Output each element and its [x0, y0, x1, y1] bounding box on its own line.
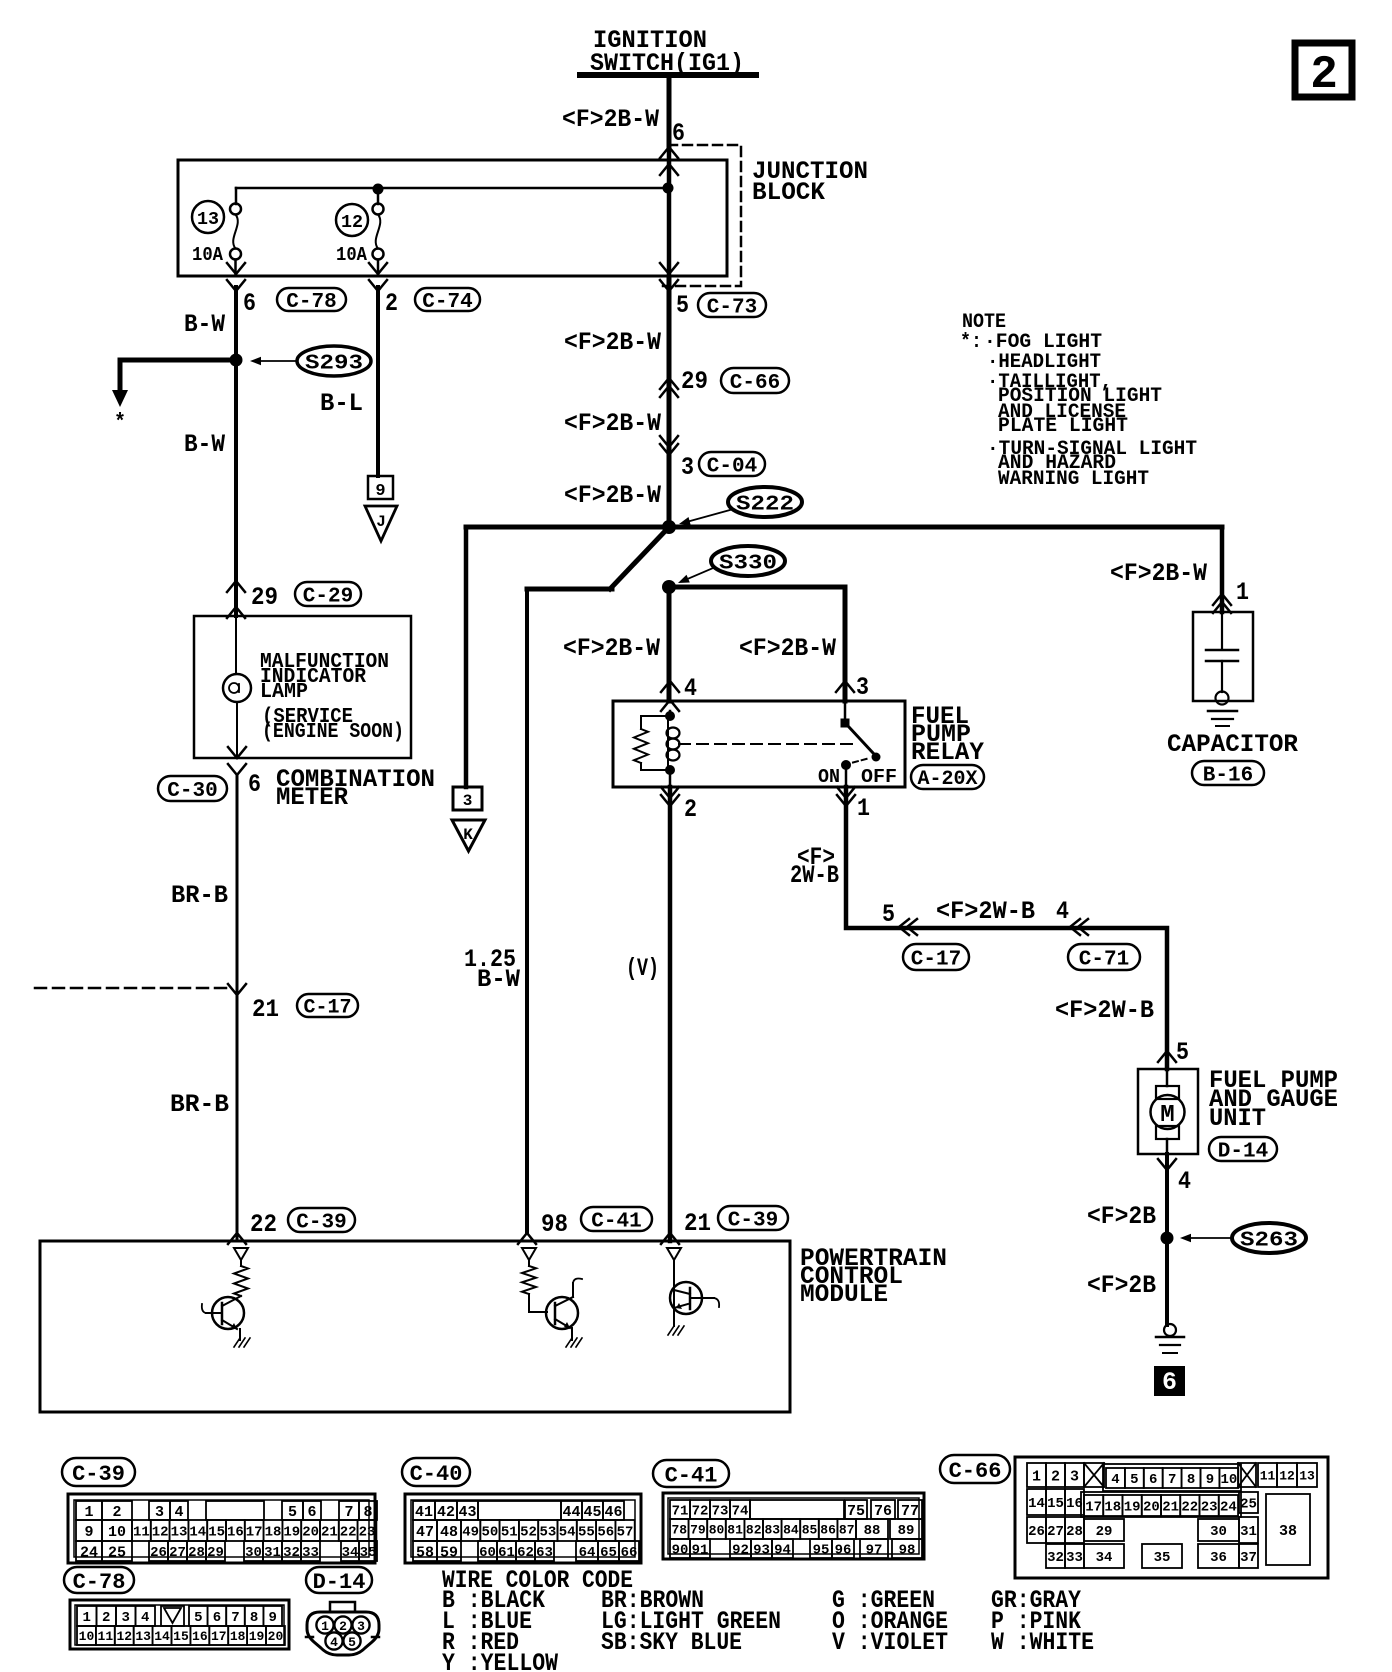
wire inside junction block	[667, 146, 672, 277]
svg-text:3: 3	[1070, 1468, 1079, 1485]
PCM pullup resistor R2	[528, 1260, 530, 1266]
svg-text:41: 41	[415, 1504, 433, 1521]
wire BR-B from combination meter	[236, 775, 239, 1241]
svg-text:2: 2	[1051, 1468, 1060, 1485]
bus wire from S222 to capacitor	[466, 525, 1222, 530]
svg-text:C-30: C-30	[167, 780, 217, 803]
svg-text:35: 35	[1154, 1550, 1171, 1566]
malfunction indicator lamp box	[194, 616, 411, 758]
svg-text:C-41: C-41	[591, 1211, 641, 1234]
svg-text:21: 21	[252, 995, 279, 1024]
svg-text:78: 78	[671, 1523, 687, 1538]
svg-text:51: 51	[501, 1525, 518, 1541]
connector arrow into lamp box	[227, 607, 245, 618]
svg-text:21: 21	[1162, 1500, 1179, 1516]
svg-text:29: 29	[681, 367, 708, 396]
svg-text:45: 45	[583, 1504, 601, 1521]
svg-text:C-78: C-78	[286, 291, 336, 314]
svg-text:77: 77	[901, 1503, 919, 1520]
svg-text:4: 4	[1056, 897, 1069, 926]
svg-text:18: 18	[230, 1629, 246, 1644]
svg-text:15: 15	[173, 1629, 189, 1644]
relay switch fixed contact from pin 3	[844, 701, 847, 719]
svg-text:89: 89	[898, 1523, 915, 1539]
PCM pin 98 label (C-41)	[518, 1233, 536, 1244]
connector view C-40	[405, 1494, 641, 1563]
svg-text:3: 3	[856, 673, 869, 702]
svg-text:13: 13	[135, 1629, 151, 1644]
terminal 3 box (K)	[453, 787, 482, 810]
connector view C-41	[663, 1493, 924, 1559]
wire 1.25 B-W to PCM pin 98	[525, 589, 529, 1233]
fuel pump relay pin 4	[661, 681, 679, 692]
PCM pin 21 label (C-39)	[661, 1233, 679, 1244]
svg-text:21: 21	[321, 1525, 338, 1541]
splice S330	[711, 546, 785, 576]
svg-text:27: 27	[1047, 1524, 1064, 1540]
relay switch arm	[848, 726, 874, 754]
svg-text:57: 57	[617, 1525, 634, 1541]
svg-text:B-L: B-L	[320, 389, 363, 418]
svg-text:11: 11	[1260, 1469, 1276, 1484]
svg-text:20: 20	[268, 1629, 284, 1644]
svg-text:5: 5	[676, 291, 689, 320]
connector arrows C-04	[660, 436, 678, 447]
connector view C-78	[70, 1600, 289, 1649]
svg-text:10A: 10A	[336, 244, 368, 266]
svg-text:12: 12	[1279, 1469, 1295, 1484]
svg-text:74: 74	[732, 1504, 749, 1520]
svg-text:<F>2B-W: <F>2B-W	[564, 328, 661, 357]
svg-text:38: 38	[1279, 1523, 1297, 1540]
fuel pump and gauge unit box	[1138, 1069, 1198, 1154]
splice S222	[728, 487, 802, 517]
svg-text:17: 17	[246, 1525, 263, 1541]
svg-text:42: 42	[437, 1504, 455, 1521]
wire down to terminal K	[464, 527, 469, 787]
junction node on bus (fuse 12 tap)	[373, 184, 384, 195]
svg-text:19: 19	[249, 1629, 265, 1644]
svg-text:15: 15	[208, 1525, 225, 1541]
svg-text:18: 18	[265, 1525, 282, 1541]
wire 2B-W main feed	[667, 277, 672, 527]
svg-text:14: 14	[1028, 1496, 1045, 1512]
svg-text:76: 76	[874, 1503, 892, 1520]
svg-text:11: 11	[133, 1525, 150, 1541]
svg-text:METER: METER	[276, 783, 348, 812]
capacitor ground	[1208, 710, 1237, 713]
svg-text:D-14: D-14	[1218, 1141, 1268, 1164]
svg-text:15: 15	[1047, 1496, 1064, 1512]
lamp wire inside box	[235, 616, 237, 674]
svg-text:3: 3	[155, 1504, 164, 1521]
svg-text:28: 28	[188, 1545, 205, 1561]
svg-text:53: 53	[539, 1525, 556, 1541]
svg-text:93: 93	[753, 1543, 770, 1559]
svg-text:22: 22	[250, 1210, 277, 1239]
svg-text:7: 7	[231, 1610, 239, 1626]
fuel pump relay pin 3	[836, 681, 854, 692]
svg-text:35: 35	[360, 1545, 377, 1561]
svg-text:S330: S330	[719, 553, 777, 576]
svg-text:1: 1	[1032, 1468, 1041, 1485]
relay pin4 entry arrow	[661, 700, 679, 711]
svg-text:<F>2B-W: <F>2B-W	[1110, 559, 1207, 588]
connector arrows below fuse 12	[369, 263, 387, 274]
svg-text:*: *	[114, 410, 126, 435]
relay pin 2	[661, 787, 679, 798]
svg-text:36: 36	[1210, 1550, 1227, 1566]
svg-text:*:: *:	[960, 331, 982, 354]
combination meter C-30 label	[158, 776, 227, 801]
svg-text:10: 10	[1220, 1472, 1237, 1488]
svg-text:3: 3	[681, 453, 694, 482]
bus wire inside junction block	[236, 187, 668, 190]
PCM transistor Q3	[673, 1260, 675, 1326]
wire B-W from fuse 13 to malfunction indicator lamp	[234, 287, 238, 616]
svg-text:26: 26	[1028, 1524, 1045, 1540]
svg-text:86: 86	[820, 1523, 836, 1538]
PCM transistor Q1	[212, 1297, 244, 1329]
connector arrows wire 6 into junction block	[660, 147, 678, 158]
svg-text:4: 4	[1178, 1167, 1191, 1196]
connector view C-39 label	[62, 1458, 135, 1486]
connector view C-66 label	[940, 1455, 1010, 1483]
svg-text:BLOCK: BLOCK	[752, 178, 825, 207]
svg-text:29: 29	[1096, 1524, 1113, 1540]
connector view C-40 label	[402, 1458, 470, 1486]
svg-text:27: 27	[169, 1545, 186, 1561]
svg-text:84: 84	[783, 1523, 799, 1538]
svg-text:OFF: OFF	[861, 766, 897, 788]
wire B-L from fuse 12	[376, 287, 380, 476]
connector arrows capacitor pin 1	[1220, 527, 1225, 612]
svg-text:9: 9	[375, 482, 385, 501]
svg-text:7: 7	[344, 1504, 353, 1521]
svg-text:<F>2B-W: <F>2B-W	[563, 634, 660, 663]
svg-text:6: 6	[1149, 1472, 1157, 1488]
wire 2B to ground	[1165, 1154, 1169, 1325]
powertrain control module box	[40, 1241, 790, 1412]
svg-text:75: 75	[847, 1503, 865, 1520]
svg-text:C-40: C-40	[410, 1462, 463, 1487]
relay resistor (parallel with coil)	[641, 716, 670, 729]
svg-text:C-04: C-04	[707, 456, 757, 479]
svg-text:<F>2W-B: <F>2W-B	[936, 897, 1035, 926]
svg-text:A-20X: A-20X	[917, 768, 977, 791]
svg-text:4: 4	[141, 1610, 149, 1626]
dashed harness line	[35, 987, 230, 990]
branch wire to fog/head/tail lights (asterisk)	[120, 360, 236, 392]
relay actuation dashed link	[679, 743, 858, 745]
svg-text:96: 96	[835, 1543, 852, 1559]
svg-text:10: 10	[79, 1629, 95, 1644]
svg-text:C-66: C-66	[730, 372, 780, 395]
svg-text:C-71: C-71	[1079, 949, 1129, 972]
svg-text:23: 23	[359, 1525, 376, 1541]
svg-text:(ENGINE SOON): (ENGINE SOON)	[262, 721, 404, 744]
svg-text:98: 98	[541, 1210, 568, 1239]
svg-text:<F>2B-W: <F>2B-W	[564, 481, 661, 510]
svg-text:56: 56	[597, 1525, 614, 1541]
svg-text:C-74: C-74	[422, 291, 472, 314]
svg-text:2: 2	[112, 1504, 121, 1521]
svg-text:<F>2B-W: <F>2B-W	[564, 409, 661, 438]
svg-text:50: 50	[482, 1525, 499, 1541]
svg-text:20: 20	[302, 1525, 319, 1541]
svg-text:CAPACITOR: CAPACITOR	[1167, 730, 1298, 759]
svg-text:B-W: B-W	[184, 310, 225, 339]
lamp bulb	[223, 674, 251, 702]
svg-text:16: 16	[1066, 1496, 1083, 1512]
svg-text:48: 48	[440, 1524, 458, 1541]
fuse 13 (10A)	[235, 188, 238, 204]
svg-text:C-66: C-66	[949, 1459, 1002, 1484]
svg-text:LAMP: LAMP	[260, 681, 308, 704]
svg-text:2: 2	[102, 1610, 110, 1626]
wire (V) relay pin2 to PCM 21	[668, 787, 673, 1241]
PCM pin 22 label (C-39)	[228, 1233, 246, 1244]
svg-text:4: 4	[330, 1635, 338, 1650]
svg-text:23: 23	[1201, 1500, 1218, 1516]
svg-text:22: 22	[340, 1525, 357, 1541]
svg-text:3: 3	[357, 1619, 365, 1634]
svg-text:24: 24	[80, 1544, 98, 1561]
svg-text:<F>2B-W: <F>2B-W	[739, 634, 836, 663]
svg-text:32: 32	[1047, 1550, 1064, 1566]
svg-text:59: 59	[440, 1544, 458, 1561]
svg-text:37: 37	[1240, 1550, 1257, 1566]
svg-text:30: 30	[1210, 1524, 1227, 1540]
svg-text:9: 9	[1206, 1472, 1214, 1488]
connector view D-14	[330, 1602, 355, 1612]
connector arrows below fuse 13	[227, 263, 245, 274]
svg-text:82: 82	[746, 1523, 762, 1538]
svg-text:10: 10	[108, 1524, 126, 1541]
svg-text:PLATE LIGHT: PLATE LIGHT	[998, 415, 1128, 438]
svg-text:C-17: C-17	[911, 949, 961, 972]
svg-text:17: 17	[211, 1629, 227, 1644]
svg-text:5: 5	[1130, 1472, 1138, 1488]
svg-text:8: 8	[363, 1504, 372, 1521]
svg-text:S222: S222	[736, 494, 794, 517]
PCM input triangle pin 22	[234, 1248, 248, 1260]
svg-text:18: 18	[1104, 1500, 1121, 1516]
svg-text:64: 64	[579, 1545, 596, 1561]
svg-text:47: 47	[416, 1524, 434, 1541]
fuel pump pin 4	[1158, 1159, 1176, 1170]
svg-text:30: 30	[245, 1545, 262, 1561]
svg-text:2: 2	[1310, 49, 1338, 101]
svg-text:92: 92	[732, 1543, 749, 1559]
svg-text:SB:SKY BLUE: SB:SKY BLUE	[601, 1628, 742, 1657]
svg-text:BR-B: BR-B	[171, 881, 228, 910]
svg-text:3: 3	[463, 792, 473, 810]
svg-text:19: 19	[1124, 1500, 1141, 1516]
svg-text:ON: ON	[818, 766, 840, 788]
svg-text:RELAY: RELAY	[911, 738, 984, 767]
svg-text:5: 5	[1176, 1038, 1189, 1067]
svg-text:<F>2W-B: <F>2W-B	[1055, 996, 1154, 1025]
ground symbol (body ground 6)	[1164, 1324, 1176, 1336]
connector arrows below lamp box	[228, 747, 246, 758]
svg-text:28: 28	[1066, 1524, 1083, 1540]
PCM pullup resistor R1	[240, 1260, 242, 1266]
svg-text:6: 6	[213, 1610, 221, 1626]
relay pin 1	[837, 787, 855, 798]
connector arrows C-66	[660, 378, 678, 389]
svg-text:95: 95	[813, 1543, 830, 1559]
svg-text:J: J	[376, 513, 386, 531]
svg-text:4: 4	[174, 1504, 183, 1521]
svg-text:49: 49	[462, 1525, 479, 1541]
svg-text:B-W: B-W	[184, 430, 225, 459]
svg-text:1: 1	[84, 1504, 93, 1521]
junction block box	[178, 160, 727, 276]
svg-text:80: 80	[709, 1523, 725, 1538]
fuel pump motor	[1166, 1069, 1169, 1086]
svg-text:8: 8	[1187, 1472, 1195, 1488]
svg-text:62: 62	[517, 1545, 534, 1561]
PCM input triangle pin 98	[522, 1248, 536, 1260]
svg-text:3: 3	[122, 1610, 130, 1626]
svg-text:13: 13	[1299, 1469, 1315, 1484]
svg-text:88: 88	[864, 1523, 881, 1539]
svg-text:12: 12	[152, 1525, 169, 1541]
svg-text:C-73: C-73	[707, 297, 757, 320]
svg-text:14: 14	[189, 1525, 206, 1541]
svg-text:WARNING LIGHT: WARNING LIGHT	[998, 468, 1149, 491]
svg-text:24: 24	[1220, 1500, 1237, 1516]
svg-text:2: 2	[684, 795, 697, 824]
svg-text:44: 44	[562, 1504, 580, 1521]
svg-text:91: 91	[692, 1543, 709, 1559]
svg-text:BR-B: BR-B	[170, 1090, 229, 1119]
svg-text:D-14: D-14	[313, 1570, 366, 1595]
svg-text:61: 61	[498, 1545, 515, 1561]
svg-text:K: K	[463, 826, 473, 844]
fuel pump relay A-20X box	[613, 701, 905, 787]
fuel pump and gauge unit pin 5	[1158, 1051, 1176, 1062]
connector C-17 pin 21 (meter)	[228, 984, 246, 995]
page number 2	[1295, 43, 1352, 97]
svg-text:29: 29	[207, 1545, 224, 1561]
diagonal wire from S222 to PCM 98 branch	[610, 527, 669, 589]
svg-text:S293: S293	[305, 353, 363, 376]
svg-text:21: 21	[684, 1209, 711, 1238]
svg-text:97: 97	[866, 1543, 883, 1559]
svg-text:34: 34	[1096, 1550, 1113, 1566]
svg-text:34: 34	[342, 1545, 359, 1561]
fuse 12 (10A)	[377, 189, 380, 204]
connector view D-14 label	[306, 1567, 372, 1593]
svg-text:<F>2B-W: <F>2B-W	[562, 105, 659, 134]
svg-text:31: 31	[1240, 1524, 1257, 1540]
relay coil node top	[669, 711, 672, 716]
svg-text:16: 16	[192, 1629, 208, 1644]
svg-text:16: 16	[227, 1525, 244, 1541]
terminal J triangle	[365, 506, 397, 541]
svg-text:5: 5	[288, 1504, 297, 1521]
svg-text:13: 13	[197, 210, 219, 230]
wire from S330 to fuel pump relay pin 3	[669, 587, 845, 701]
svg-text:22: 22	[1181, 1500, 1198, 1516]
svg-text:4: 4	[684, 674, 697, 703]
svg-text:94: 94	[774, 1543, 791, 1559]
svg-text:54: 54	[559, 1525, 576, 1541]
svg-text:87: 87	[839, 1523, 855, 1538]
svg-text:C-17: C-17	[303, 997, 351, 1020]
svg-text:46: 46	[604, 1504, 622, 1521]
connector view C-78 label	[64, 1567, 134, 1593]
svg-text:33: 33	[1066, 1550, 1083, 1566]
svg-text:14: 14	[154, 1629, 170, 1644]
svg-text:83: 83	[764, 1523, 780, 1538]
svg-text:90: 90	[672, 1543, 689, 1559]
junction block dashed outline	[663, 145, 741, 286]
svg-text:UNIT: UNIT	[1209, 1104, 1266, 1133]
relay ON contact	[841, 760, 851, 770]
terminal K triangle	[452, 820, 485, 851]
svg-text:B-W: B-W	[477, 965, 520, 994]
svg-text:5: 5	[348, 1635, 356, 1650]
svg-text:60: 60	[479, 1545, 496, 1561]
wire 2B-W from ignition switch	[667, 75, 672, 146]
svg-text:73: 73	[712, 1504, 729, 1520]
svg-text:79: 79	[690, 1523, 706, 1538]
svg-text:W :WHITE: W :WHITE	[991, 1628, 1094, 1657]
svg-text:9: 9	[84, 1524, 93, 1541]
svg-text:5: 5	[882, 900, 895, 929]
svg-text:7: 7	[1168, 1472, 1176, 1488]
svg-text:63: 63	[536, 1545, 553, 1561]
svg-text:C-41: C-41	[665, 1463, 718, 1488]
terminal 9	[368, 476, 393, 499]
svg-text:C-29: C-29	[303, 586, 353, 609]
wire from S330 to fuel pump relay pin 4	[667, 587, 672, 701]
ground designator 6	[1154, 1366, 1185, 1396]
svg-text:11: 11	[98, 1629, 114, 1644]
svg-text:43: 43	[458, 1504, 476, 1521]
svg-text:S263: S263	[1240, 1230, 1298, 1253]
PCM input triangle pin 21	[667, 1248, 681, 1260]
svg-text:(V): (V)	[626, 954, 659, 983]
svg-text:C-39: C-39	[72, 1462, 125, 1487]
svg-text:1: 1	[83, 1610, 91, 1626]
svg-text:55: 55	[578, 1525, 595, 1541]
wire 2W-B relay pin1	[846, 787, 1167, 1069]
svg-text:C-39: C-39	[296, 1212, 346, 1235]
connector view C-39	[68, 1494, 375, 1563]
svg-text:6: 6	[672, 119, 685, 148]
svg-text:1: 1	[857, 794, 870, 823]
svg-text:6: 6	[307, 1504, 316, 1521]
svg-text:32: 32	[283, 1545, 300, 1561]
svg-text:2: 2	[339, 1619, 347, 1634]
svg-text:10A: 10A	[192, 244, 224, 266]
svg-text:9: 9	[268, 1610, 276, 1626]
svg-text:Y :YELLOW: Y :YELLOW	[442, 1649, 558, 1672]
svg-text:72: 72	[692, 1504, 709, 1520]
svg-text:26: 26	[150, 1545, 167, 1561]
svg-text:C-39: C-39	[728, 1210, 778, 1233]
svg-text:66: 66	[621, 1545, 638, 1561]
svg-text:85: 85	[802, 1523, 818, 1538]
svg-text:98: 98	[899, 1543, 916, 1559]
connector view C-66	[1015, 1457, 1328, 1578]
svg-text:52: 52	[520, 1525, 537, 1541]
svg-text:29: 29	[251, 583, 278, 612]
